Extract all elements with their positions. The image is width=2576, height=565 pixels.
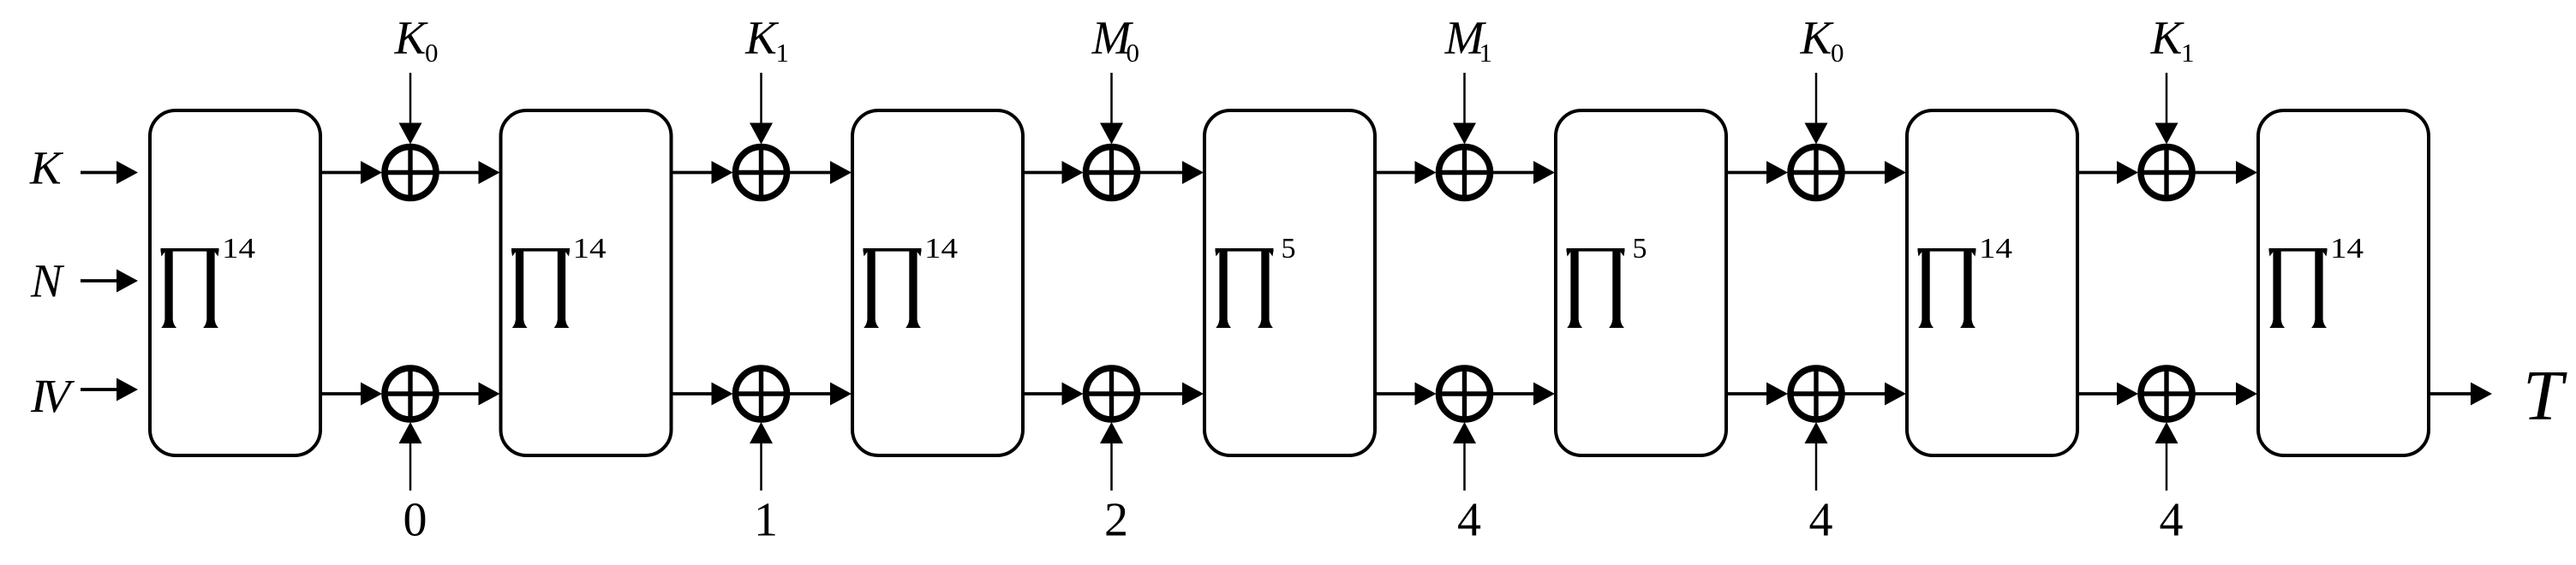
node K1 key/message label — [2150, 12, 2195, 68]
wire top XOR 2 to block3 — [790, 161, 852, 184]
xor top X3t — [1086, 147, 1138, 199]
wire block4 to bottom XOR 4 — [1375, 383, 1437, 406]
wire block5 to bottom XOR 5 — [1726, 383, 1788, 406]
svg-text:4: 4 — [1457, 494, 1481, 547]
xor bottom X3b — [1086, 368, 1138, 419]
wire vertical into bottom XOR 3 — [1100, 422, 1123, 491]
wire block1 to top XOR 1 — [320, 161, 382, 184]
svg-text:1: 1 — [1479, 38, 1493, 68]
wire bottom XOR 4 to block5 — [1493, 383, 1556, 406]
svg-text:4: 4 — [1809, 494, 1833, 547]
wire K input arrow — [81, 161, 138, 184]
svg-text:K: K — [29, 142, 64, 194]
wire vertical into top XOR 1 — [399, 73, 422, 145]
svg-text:5: 5 — [1633, 233, 1647, 265]
svg-text:14: 14 — [2330, 231, 2364, 264]
xor top X2t — [736, 147, 787, 199]
permutation block P2 (Pi^14) — [501, 110, 672, 455]
node K1 key/message label — [744, 12, 789, 68]
svg-text:14: 14 — [1979, 231, 2012, 264]
svg-text:1: 1 — [2181, 38, 2195, 68]
svg-text:1: 1 — [776, 38, 790, 68]
wire top XOR 3 to block4 — [1140, 161, 1204, 184]
wire bottom XOR 1 to block2 — [439, 383, 500, 406]
node IV input label — [30, 370, 75, 422]
node M0 key/message label — [1091, 12, 1139, 68]
node constant 4 label — [2160, 494, 2184, 547]
node constant 0 label — [403, 494, 427, 547]
wire vertical into bottom XOR 1 — [399, 422, 422, 491]
node K input label — [29, 142, 64, 194]
node constant 4 label — [1457, 494, 1481, 547]
wire block2 to bottom XOR 2 — [672, 383, 733, 406]
svg-text:14: 14 — [222, 231, 255, 264]
svg-text:K: K — [1800, 12, 1835, 64]
xor bottom X4b — [1439, 368, 1491, 419]
permutation block P7 (Pi^14) — [2258, 110, 2429, 455]
wire block4 to top XOR 4 — [1375, 161, 1437, 184]
svg-text:T: T — [2523, 356, 2567, 436]
wire vertical into bottom XOR 2 — [750, 422, 773, 491]
wire N input arrow — [81, 270, 138, 293]
svg-text:0: 0 — [403, 494, 427, 547]
node N input label — [30, 255, 65, 307]
wire bottom XOR 3 to block4 — [1140, 383, 1204, 406]
node T output label — [2523, 356, 2567, 436]
wire top XOR 1 to block2 — [439, 161, 500, 184]
svg-text:K: K — [2150, 12, 2185, 64]
node constant 2 label — [1104, 494, 1128, 547]
svg-text:0: 0 — [425, 38, 439, 68]
svg-text:0: 0 — [1127, 38, 1140, 68]
svg-text:4: 4 — [2160, 494, 2184, 547]
svg-text:0: 0 — [1831, 38, 1844, 68]
wire bottom XOR 6 to block7 — [2195, 383, 2257, 406]
permutation block P4 (Pi^5) — [1204, 110, 1375, 455]
wire block1 to bottom XOR 1 — [320, 383, 382, 406]
wire block6 to top XOR 6 — [2077, 161, 2138, 184]
xor top X6t — [2141, 147, 2192, 199]
wire bottom XOR 2 to block3 — [790, 383, 852, 406]
permutation block P6 (Pi^14) — [1907, 110, 2077, 455]
permutation block P5 (Pi^5) — [1556, 110, 1726, 455]
wire block3 to bottom XOR 3 — [1023, 383, 1084, 406]
svg-text:K: K — [394, 12, 429, 64]
wire top XOR 6 to block7 — [2195, 161, 2257, 184]
wire vertical into bottom XOR 5 — [1805, 422, 1828, 491]
xor top X4t — [1439, 147, 1491, 199]
wire top XOR 4 to block5 — [1493, 161, 1556, 184]
svg-text:1: 1 — [754, 494, 778, 547]
wire output arrow to T — [2429, 383, 2492, 406]
xor top X5t — [1790, 147, 1842, 199]
wire top XOR 5 to block6 — [1844, 161, 1906, 184]
wire bottom XOR 5 to block6 — [1844, 383, 1906, 406]
xor top X1t — [385, 147, 436, 199]
wire block2 to top XOR 2 — [672, 161, 733, 184]
xor bottom X1b — [385, 368, 436, 419]
permutation block P1 (Pi^14) — [150, 110, 320, 455]
wire vertical into top XOR 5 — [1805, 73, 1828, 145]
permutation block P3 (Pi^14) — [852, 110, 1023, 455]
node M1 key/message label — [1444, 12, 1492, 68]
svg-text:K: K — [744, 12, 780, 64]
xor bottom X5b — [1790, 368, 1842, 419]
wire block5 to top XOR 5 — [1726, 161, 1788, 184]
wire vertical into bottom XOR 4 — [1453, 422, 1476, 491]
node K0 key/message label — [394, 12, 439, 68]
svg-text:5: 5 — [1282, 233, 1296, 265]
svg-text:14: 14 — [573, 231, 607, 264]
wire vertical into top XOR 6 — [2155, 73, 2179, 145]
node K0 key/message label — [1800, 12, 1844, 68]
node constant 4 label — [1809, 494, 1833, 547]
wire vertical into top XOR 4 — [1453, 73, 1476, 145]
xor bottom X6b — [2141, 368, 2192, 419]
svg-text:14: 14 — [924, 231, 958, 264]
wire IV input arrow — [81, 378, 138, 401]
wire vertical into top XOR 3 — [1100, 73, 1123, 145]
svg-text:N: N — [30, 255, 65, 307]
wire vertical into bottom XOR 6 — [2155, 422, 2179, 491]
wire block3 to top XOR 3 — [1023, 161, 1084, 184]
xor bottom X2b — [736, 368, 787, 419]
node constant 1 label — [754, 494, 778, 547]
wire vertical into top XOR 2 — [750, 73, 773, 145]
svg-text:2: 2 — [1104, 494, 1128, 547]
wire block6 to bottom XOR 6 — [2077, 383, 2138, 406]
